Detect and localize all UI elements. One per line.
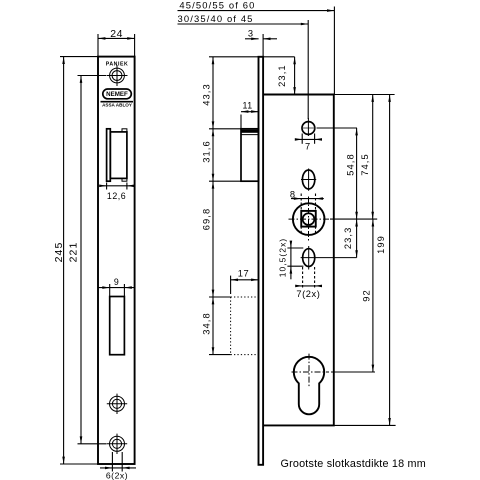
- svg-text:34,8: 34,8: [202, 312, 212, 335]
- dim 45/50/55 of 60: [178, 0, 335, 95]
- screw hole upper: [107, 394, 127, 414]
- dim 3 (faceplate thickness): [245, 29, 277, 57]
- svg-text:7(2x): 7(2x): [296, 289, 320, 299]
- dim 34.8: [202, 297, 231, 355]
- svg-text:11: 11: [242, 101, 252, 111]
- svg-text:43,3: 43,3: [202, 83, 212, 106]
- svg-text:74,5: 74,5: [360, 153, 370, 176]
- dim 23.1: [277, 57, 296, 95]
- svg-text:245: 245: [53, 242, 65, 263]
- svg-text:23,1: 23,1: [277, 64, 287, 87]
- svg-text:45/50/55 of 60: 45/50/55 of 60: [179, 0, 255, 11]
- dim 12.6: [99, 183, 134, 201]
- svg-text:10,5(2x): 10,5(2x): [278, 238, 288, 278]
- spindle hole 7: [302, 118, 357, 136]
- svg-text:ASSA ABLOY: ASSA ABLOY: [102, 102, 132, 107]
- svg-text:3: 3: [248, 29, 254, 39]
- dim 92: [362, 219, 375, 372]
- oval hole lower: [301, 246, 357, 270]
- dim 7: [295, 134, 322, 152]
- lock case outline: [263, 95, 334, 426]
- faceplate front view outline: [98, 57, 135, 464]
- svg-text:30/35/40 of 45: 30/35/40 of 45: [178, 13, 254, 24]
- svg-text:23,3: 23,3: [343, 227, 353, 250]
- dim 30/35/40 of 45: [178, 13, 309, 119]
- dim 245: [53, 57, 98, 464]
- dim 6(2x): [100, 452, 136, 480]
- dim 199: [334, 95, 396, 426]
- svg-text:12,6: 12,6: [107, 191, 126, 201]
- screw hole lower: [107, 434, 127, 454]
- dim 54.8: [345, 128, 358, 219]
- deadbolt hidden (dotted): [231, 297, 259, 355]
- dim 10.5(2x): [278, 238, 304, 280]
- dim 11: [241, 101, 259, 129]
- top hole on faceplate: [107, 65, 128, 86]
- dim 74.5: [360, 95, 374, 220]
- svg-text:Grootste slotkastdikte 18 mm: Grootste slotkastdikte 18 mm: [281, 458, 426, 470]
- ASSA ABLOY logo: [101, 102, 134, 108]
- extension line top (strip top / 43.3 / 23.1): [209, 56, 295, 58]
- svg-text:17: 17: [238, 269, 249, 279]
- dim 221: [67, 76, 106, 444]
- svg-text:54,8: 54,8: [345, 153, 355, 176]
- follower with square spindle hole: [289, 197, 330, 242]
- svg-text:6(2x): 6(2x): [106, 470, 128, 480]
- deadbolt cutout in faceplate: [110, 297, 125, 355]
- dim 7(2x): [295, 267, 322, 299]
- svg-text:24: 24: [110, 28, 123, 40]
- dim 69.8: [202, 181, 215, 297]
- svg-text:NEMEF: NEMEF: [106, 91, 128, 98]
- euro cylinder hole: [292, 354, 376, 415]
- svg-text:199: 199: [376, 235, 386, 254]
- svg-text:69,8: 69,8: [202, 208, 212, 231]
- spindle centerline extension: [330, 218, 377, 220]
- svg-text:31,6: 31,6: [202, 140, 212, 163]
- svg-text:92: 92: [362, 289, 372, 302]
- faceplate edge view strip: [259, 57, 264, 465]
- dim 8 (square): [290, 189, 324, 233]
- svg-text:7: 7: [305, 142, 311, 152]
- NEMEF badge: [103, 89, 132, 99]
- dim 24: [98, 28, 135, 57]
- svg-text:9: 9: [114, 277, 119, 287]
- dim 31.6: [202, 129, 259, 181]
- dim 23.3: [343, 219, 358, 258]
- latch bolt side view: [241, 129, 259, 181]
- dim 17: [231, 269, 259, 294]
- dim 9: [98, 277, 135, 297]
- svg-text:221: 221: [67, 242, 79, 263]
- oval hole upper: [301, 169, 316, 191]
- dim 43.3: [202, 57, 241, 129]
- latch cutout in faceplate: [107, 129, 127, 181]
